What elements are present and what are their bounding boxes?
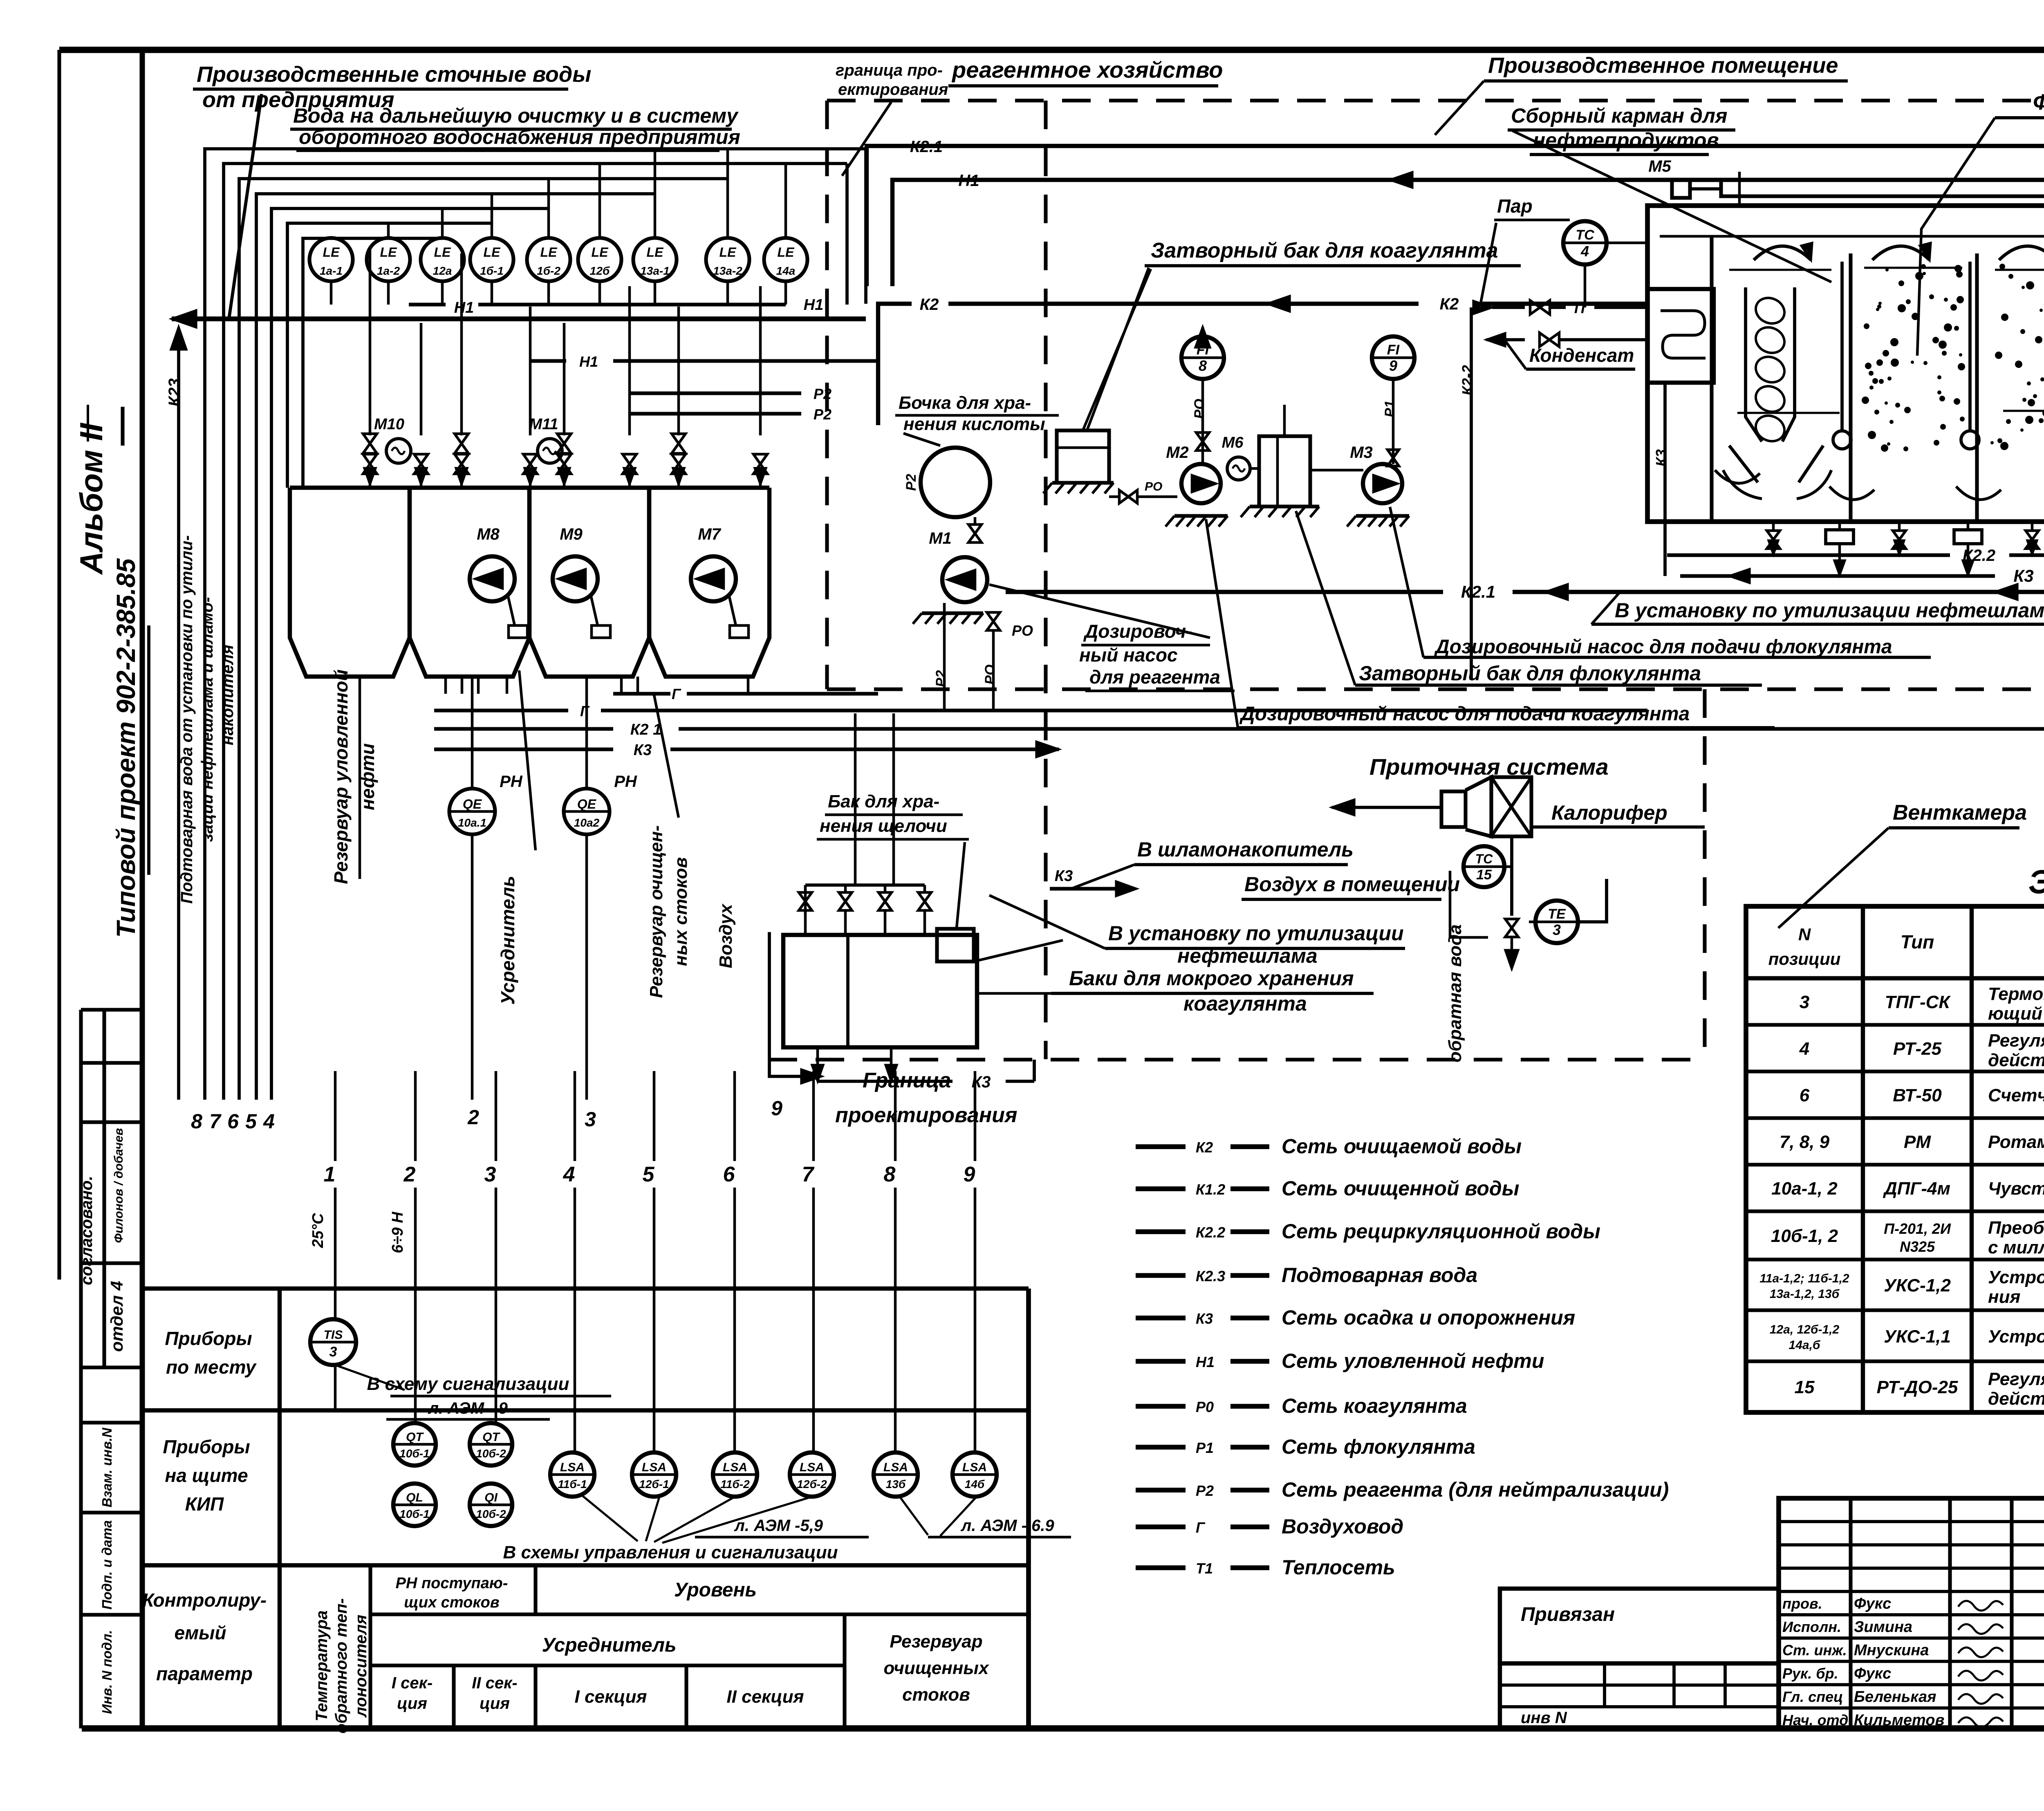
svg-text:Пар: Пар xyxy=(1497,195,1533,217)
svg-text:Теплосеть: Теплосеть xyxy=(1282,1556,1395,1579)
svg-text:10а-1, 2: 10а-1, 2 xyxy=(1771,1179,1838,1199)
svg-text:Усреднитель: Усреднитель xyxy=(497,876,518,1004)
svg-text:для реагента: для реагента xyxy=(1089,666,1220,688)
svg-text:Температура: Температура xyxy=(313,1610,331,1721)
svg-text:ных стоков: ных стоков xyxy=(671,857,691,966)
svg-text:М5: М5 xyxy=(1648,157,1671,175)
svg-text:Дозировочный насос для пода: Дозировочный насос для подачи коагулянта xyxy=(1239,703,1690,725)
svg-text:QT: QT xyxy=(482,1430,500,1444)
svg-text:2: 2 xyxy=(467,1106,479,1129)
svg-text:К2 1: К2 1 xyxy=(630,721,661,738)
svg-text:4: 4 xyxy=(263,1110,275,1133)
svg-text:РН: РН xyxy=(614,773,637,791)
svg-text:Р2: Р2 xyxy=(933,670,949,687)
svg-text:Воздух в помещении: Воздух в помещении xyxy=(1244,873,1460,896)
svg-text:емый: емый xyxy=(175,1622,226,1643)
svg-text:Р1: Р1 xyxy=(1382,400,1398,417)
svg-text:5: 5 xyxy=(643,1163,655,1186)
svg-text:11б-1: 11б-1 xyxy=(558,1478,587,1490)
svg-text:3: 3 xyxy=(1553,921,1561,938)
svg-text:Дозировоч-: Дозировоч- xyxy=(1083,621,1192,642)
svg-text:6: 6 xyxy=(1800,1085,1810,1105)
svg-text:LSA: LSA xyxy=(883,1461,908,1474)
svg-text:LE: LE xyxy=(592,245,609,260)
svg-text:Г: Г xyxy=(580,703,590,719)
svg-text:Сеть очищаемой воды: Сеть очищаемой воды xyxy=(1282,1135,1522,1158)
svg-text:6÷9 Н: 6÷9 Н xyxy=(389,1211,406,1253)
svg-text:В установку по утилизации н: В установку по утилизации нефтешлама xyxy=(1615,599,2044,622)
svg-text:Подтоварная вода: Подтоварная вода xyxy=(1282,1264,1477,1287)
svg-text:LE: LE xyxy=(719,245,737,260)
svg-text:инв N: инв N xyxy=(1521,1709,1567,1727)
svg-text:КИП: КИП xyxy=(185,1493,224,1515)
svg-text:FI: FI xyxy=(1387,342,1400,358)
svg-text:10б-2: 10б-2 xyxy=(476,1447,506,1460)
svg-text:К3: К3 xyxy=(1055,867,1073,885)
svg-text:LE: LE xyxy=(484,245,501,260)
svg-text:4: 4 xyxy=(563,1163,575,1186)
svg-text:В схему сигнализации: В схему сигнализации xyxy=(367,1374,569,1394)
svg-text:10а.1: 10а.1 xyxy=(458,816,486,829)
svg-text:Сеть коагулянта: Сеть коагулянта xyxy=(1282,1394,1467,1417)
svg-text:QЕ: QЕ xyxy=(577,797,597,811)
svg-text:Резервуар: Резервуар xyxy=(890,1632,982,1652)
svg-text:М10: М10 xyxy=(374,416,404,433)
svg-text:накопителя: накопителя xyxy=(219,645,237,745)
svg-text:Тип: Тип xyxy=(1901,931,1934,953)
svg-text:13а-1,2, 13б: 13а-1,2, 13б xyxy=(1770,1287,1840,1301)
svg-text:14б: 14б xyxy=(965,1478,985,1490)
svg-text:Г: Г xyxy=(672,686,681,702)
svg-text:обратного теп-: обратного теп- xyxy=(332,1598,350,1734)
svg-text:LSA: LSA xyxy=(800,1461,824,1474)
svg-text:граница про-: граница про- xyxy=(836,61,943,79)
svg-text:Воздух: Воздух xyxy=(716,903,736,968)
svg-text:Сеть рециркуляционной воды: Сеть рециркуляционной воды xyxy=(1282,1220,1600,1243)
svg-text:РН: РН xyxy=(500,773,523,791)
svg-text:N325: N325 xyxy=(1900,1238,1935,1255)
svg-text:действия: действия xyxy=(1988,1389,2044,1409)
svg-text:лоносителя: лоносителя xyxy=(352,1615,370,1718)
svg-text:Резервуар уловленной: Резервуар уловленной xyxy=(330,669,352,884)
svg-text:л. АЭМ -5,9: л. АЭМ -5,9 xyxy=(734,1517,823,1535)
svg-text:2: 2 xyxy=(403,1163,416,1186)
svg-text:Сеть уловленной нефти: Сеть уловленной нефти xyxy=(1282,1349,1544,1372)
svg-text:параметр: параметр xyxy=(156,1663,253,1684)
svg-text:К2.1: К2.1 xyxy=(910,138,943,156)
svg-text:Взам. инв.N: Взам. инв.N xyxy=(99,1427,114,1507)
svg-text:Вода на дальнейшую очистку и в: Вода на дальнейшую очистку и в систему xyxy=(293,104,739,127)
svg-text:Альбом II: Альбом II xyxy=(73,423,109,575)
svg-text:LE: LE xyxy=(540,245,558,260)
svg-text:Сборный карман для: Сборный карман для xyxy=(1511,104,1727,127)
svg-text:стоков: стоков xyxy=(902,1685,970,1705)
svg-text:П-201, 2И: П-201, 2И xyxy=(1884,1220,1951,1237)
svg-text:Г: Г xyxy=(1196,1519,1206,1536)
svg-text:Затворный бак для флокулянт: Затворный бак для флокулянта xyxy=(1359,662,1701,685)
svg-text:РТ-ДО-25: РТ-ДО-25 xyxy=(1877,1377,1958,1397)
svg-text:8: 8 xyxy=(191,1110,202,1133)
svg-text:ный насос: ный насос xyxy=(1079,644,1178,666)
svg-text:коагулянта: коагулянта xyxy=(1183,992,1307,1015)
svg-text:Мнускина: Мнускина xyxy=(1854,1642,1929,1659)
svg-text:Флотатор: Флотатор xyxy=(2033,90,2044,114)
svg-text:QL: QL xyxy=(406,1491,423,1504)
svg-text:щих стоков: щих стоков xyxy=(404,1594,500,1611)
svg-text:12б: 12б xyxy=(590,264,610,277)
svg-text:РО: РО xyxy=(982,664,998,684)
svg-text:Инв. N подл.: Инв. N подл. xyxy=(99,1630,114,1714)
svg-text:Типовой проект 902-2-385.85: Типовой проект 902-2-385.85 xyxy=(111,558,141,938)
svg-text:с миллиамперметром: с миллиамперметром xyxy=(1988,1237,2044,1257)
svg-text:Сеть осадка и опорожнения: Сеть осадка и опорожнения xyxy=(1282,1306,1575,1329)
svg-text:Устройство контроля сопротив: Устройство контроля сопротивле- xyxy=(1988,1267,2044,1287)
svg-text:Дозировочный насос для пода: Дозировочный насос для подачи флокулянта xyxy=(1434,636,1892,658)
svg-text:ния: ния xyxy=(1988,1287,2020,1307)
svg-text:пров.: пров. xyxy=(1782,1595,1822,1612)
svg-text:К2.3: К2.3 xyxy=(1196,1268,1225,1284)
svg-text:15: 15 xyxy=(1476,867,1492,883)
svg-text:Филонов / добачев: Филонов / добачев xyxy=(112,1128,126,1243)
svg-text:Баки для мокрого хранения: Баки для мокрого хранения xyxy=(1069,967,1354,990)
svg-text:3: 3 xyxy=(329,1344,337,1360)
svg-text:I секция: I секция xyxy=(575,1687,647,1707)
svg-text:УКС-1,1: УКС-1,1 xyxy=(1884,1327,1951,1347)
svg-text:Т1: Т1 xyxy=(1196,1560,1213,1577)
svg-text:Привязан: Привязан xyxy=(1521,1604,1615,1625)
svg-text:РО: РО xyxy=(1012,622,1033,639)
svg-text:К2.1: К2.1 xyxy=(1461,582,1495,601)
svg-text:согласовано.: согласовано. xyxy=(78,1176,96,1285)
svg-text:6: 6 xyxy=(723,1163,735,1186)
svg-text:К3: К3 xyxy=(2013,566,2033,585)
svg-text:УКС-1,2: УКС-1,2 xyxy=(1884,1275,1951,1295)
svg-text:Сеть флокулянта: Сеть флокулянта xyxy=(1282,1435,1475,1458)
svg-text:12а, 12б-1,2: 12а, 12б-1,2 xyxy=(1770,1323,1840,1336)
svg-text:К2: К2 xyxy=(920,296,939,314)
svg-text:Подп. и дата: Подп. и дата xyxy=(99,1520,114,1610)
svg-text:LE: LE xyxy=(778,245,795,260)
svg-text:Сеть очищенной воды: Сеть очищенной воды xyxy=(1282,1177,1520,1200)
svg-text:3: 3 xyxy=(585,1108,596,1131)
svg-text:ТЕ: ТЕ xyxy=(1548,906,1566,922)
svg-text:ция: ция xyxy=(480,1694,510,1712)
svg-text:Контролиру-: Контролиру- xyxy=(142,1589,267,1611)
svg-text:Ротаметр: Ротаметр xyxy=(1988,1132,2044,1152)
svg-text:К3: К3 xyxy=(1653,449,1670,466)
svg-text:РО: РО xyxy=(1145,480,1162,493)
svg-text:3: 3 xyxy=(1800,992,1809,1012)
svg-text:Фукс: Фукс xyxy=(1854,1595,1891,1612)
svg-text:ТС: ТС xyxy=(1576,227,1594,243)
svg-text:II сек-: II сек- xyxy=(472,1674,517,1692)
svg-text:обратная вода: обратная вода xyxy=(1445,924,1465,1062)
svg-text:3: 3 xyxy=(484,1163,496,1186)
svg-text:Преобразователь промышленный: Преобразователь промышленный xyxy=(1988,1218,2044,1238)
svg-text:М8: М8 xyxy=(477,525,500,543)
svg-text:очищенных: очищенных xyxy=(884,1658,989,1678)
svg-text:13а-2: 13а-2 xyxy=(713,264,742,277)
svg-text:Нач. отд: Нач. отд xyxy=(1782,1712,1848,1728)
svg-text:Воздуховод: Воздуховод xyxy=(1282,1515,1403,1538)
svg-text:Усреднитель: Усреднитель xyxy=(542,1634,676,1656)
svg-text:Регулятор температуры прямог: Регулятор температуры прямого xyxy=(1988,1369,2044,1389)
svg-text:QЕ: QЕ xyxy=(463,797,482,811)
svg-text:К2: К2 xyxy=(1196,1139,1213,1156)
svg-text:л. АЭМ - 6.9: л. АЭМ - 6.9 xyxy=(960,1517,1054,1535)
svg-text:оборотного водоснабжения пре: оборотного водоснабжения предприятия xyxy=(299,126,740,148)
svg-text:9: 9 xyxy=(771,1097,782,1120)
svg-text:Бак для хра-: Бак для хра- xyxy=(828,791,939,811)
svg-text:Устройство контроля сопротив: Устройство контроля сопротивления xyxy=(1988,1327,2044,1347)
svg-text:Приборы: Приборы xyxy=(165,1328,252,1349)
svg-text:Затворный бак для коагулянт: Затворный бак для коагулянта xyxy=(1151,239,1498,262)
svg-text:Кильметов: Кильметов xyxy=(1854,1712,1944,1729)
svg-text:11а-1,2; 11б-1,2: 11а-1,2; 11б-1,2 xyxy=(1759,1272,1849,1285)
svg-text:нения кислоты: нения кислоты xyxy=(903,414,1045,434)
svg-text:Р2: Р2 xyxy=(1196,1482,1214,1499)
svg-text:12б-2: 12б-2 xyxy=(797,1478,827,1490)
svg-text:LE: LE xyxy=(323,245,341,260)
svg-text:Резервуар очищен-: Резервуар очищен- xyxy=(646,825,666,998)
svg-text:6: 6 xyxy=(227,1110,239,1133)
svg-text:К2: К2 xyxy=(1440,295,1459,313)
svg-text:14а: 14а xyxy=(776,264,796,277)
svg-text:М7: М7 xyxy=(698,525,721,543)
svg-text:ВТ-50: ВТ-50 xyxy=(1893,1085,1942,1105)
svg-text:8: 8 xyxy=(884,1163,896,1186)
svg-text:на щите: на щите xyxy=(165,1465,248,1486)
svg-text:7: 7 xyxy=(209,1110,222,1133)
svg-text:К3: К3 xyxy=(634,742,652,759)
svg-text:Р0: Р0 xyxy=(1196,1399,1214,1415)
svg-text:Венткамера: Венткамера xyxy=(1893,801,2027,825)
svg-text:I сек-: I сек- xyxy=(392,1674,433,1692)
svg-text:Фукс: Фукс xyxy=(1854,1665,1891,1682)
svg-text:4: 4 xyxy=(1799,1039,1809,1059)
svg-text:LE: LE xyxy=(434,245,452,260)
svg-text:9: 9 xyxy=(964,1163,975,1186)
svg-text:по месту: по месту xyxy=(166,1356,257,1378)
svg-text:К23: К23 xyxy=(166,378,184,406)
svg-text:Экспликация: Экспликация xyxy=(2028,863,2044,901)
svg-text:Калорифер: Калорифер xyxy=(1551,801,1667,824)
svg-text:М2: М2 xyxy=(1166,444,1189,462)
svg-text:позиции: позиции xyxy=(1768,949,1841,968)
svg-text:11б-2: 11б-2 xyxy=(720,1478,750,1490)
svg-text:4: 4 xyxy=(1580,243,1589,260)
svg-text:проектирования: проектирования xyxy=(835,1103,1018,1127)
svg-text:ТПГ-СК: ТПГ-СК xyxy=(1885,992,1951,1012)
svg-text:12б-1: 12б-1 xyxy=(639,1478,669,1490)
svg-text:М6: М6 xyxy=(1222,434,1244,451)
svg-text:Уровень: Уровень xyxy=(674,1579,757,1601)
svg-text:QT: QT xyxy=(406,1430,424,1444)
svg-text:Беленькая: Беленькая xyxy=(1854,1688,1936,1706)
svg-text:LE: LE xyxy=(380,245,398,260)
svg-text:зации нефтешлама и шламо-: зации нефтешлама и шламо- xyxy=(198,597,216,842)
svg-text:ДПГ-4м: ДПГ-4м xyxy=(1883,1179,1950,1199)
svg-text:1а-2: 1а-2 xyxy=(377,264,400,277)
svg-text:нения щелочи: нения щелочи xyxy=(820,816,947,836)
svg-text:10б-2: 10б-2 xyxy=(476,1508,506,1520)
svg-text:отдел 4: отдел 4 xyxy=(107,1281,126,1352)
svg-text:Производственное помещение: Производственное помещение xyxy=(1488,53,1838,78)
svg-text:Н1: Н1 xyxy=(454,299,474,316)
svg-text:Р1: Р1 xyxy=(1196,1439,1214,1456)
svg-text:Гл. спец: Гл. спец xyxy=(1782,1688,1843,1705)
svg-text:10б-1, 2: 10б-1, 2 xyxy=(1771,1226,1838,1246)
svg-text:В установку по утилизации: В установку по утилизации xyxy=(1108,922,1404,945)
svg-text:II секция: II секция xyxy=(726,1687,804,1707)
svg-text:N: N xyxy=(1798,925,1811,944)
svg-text:1а-1: 1а-1 xyxy=(320,264,343,277)
svg-text:Бочка для хра-: Бочка для хра- xyxy=(899,393,1031,413)
svg-text:К2.2: К2.2 xyxy=(1196,1224,1225,1241)
svg-text:РМ: РМ xyxy=(1904,1132,1931,1152)
svg-text:8: 8 xyxy=(1199,357,1207,374)
svg-text:Конденсат: Конденсат xyxy=(1529,345,1634,366)
svg-text:QI: QI xyxy=(484,1491,498,1504)
svg-text:Исполн.: Исполн. xyxy=(1782,1618,1841,1635)
svg-text:7, 8, 9: 7, 8, 9 xyxy=(1780,1132,1830,1152)
svg-text:М11: М11 xyxy=(529,416,558,433)
svg-text:М9: М9 xyxy=(560,525,583,543)
svg-text:ющий сигнализирующий: ющий сигнализирующий xyxy=(1988,1004,2044,1024)
svg-text:12а: 12а xyxy=(433,264,452,277)
svg-text:10б-1: 10б-1 xyxy=(399,1447,429,1460)
svg-text:Рук. бр.: Рук. бр. xyxy=(1782,1665,1838,1682)
svg-text:Термометр манометрический пок: Термометр манометрический показыва- xyxy=(1988,984,2044,1004)
svg-text:10а2: 10а2 xyxy=(574,816,600,829)
svg-text:9: 9 xyxy=(1389,357,1397,374)
svg-text:13а-1: 13а-1 xyxy=(640,264,670,277)
svg-text:Счетчик холодной воды: Счетчик холодной воды xyxy=(1988,1085,2044,1105)
svg-text:РН поступаю-: РН поступаю- xyxy=(396,1575,508,1592)
svg-text:ектирования: ектирования xyxy=(838,81,948,99)
svg-text:Приточная система: Приточная система xyxy=(1369,754,1609,780)
svg-text:нефтешлама: нефтешлама xyxy=(1177,944,1318,967)
svg-text:Приборы: Приборы xyxy=(163,1436,250,1457)
svg-text:14а,б: 14а,б xyxy=(1789,1338,1821,1352)
svg-text:1: 1 xyxy=(324,1163,336,1186)
svg-text:нефтепродуктов: нефтепродуктов xyxy=(1533,129,1719,152)
svg-text:реагентное хозяйство: реагентное хозяйство xyxy=(951,57,1223,83)
svg-text:Р2: Р2 xyxy=(903,474,919,491)
svg-text:РТ-25: РТ-25 xyxy=(1893,1039,1942,1059)
svg-text:LSA: LSA xyxy=(642,1461,666,1474)
svg-text:М3: М3 xyxy=(1350,444,1373,462)
svg-text:ТI: ТI xyxy=(1572,300,1585,316)
svg-text:ция: ция xyxy=(397,1694,427,1712)
svg-text:25°C: 25°C xyxy=(309,1213,327,1248)
svg-text:15: 15 xyxy=(1795,1377,1815,1397)
svg-text:7: 7 xyxy=(802,1163,815,1186)
svg-text:РО: РО xyxy=(1192,399,1207,419)
svg-text:В шламонакопитель: В шламонакопитель xyxy=(1137,838,1354,861)
svg-text:М1: М1 xyxy=(929,529,952,547)
svg-text:13б: 13б xyxy=(886,1478,906,1490)
svg-text:LSA: LSA xyxy=(560,1461,585,1474)
svg-text:Н1: Н1 xyxy=(958,172,979,190)
svg-text:LSA: LSA xyxy=(962,1461,987,1474)
svg-text:К2-2: К2-2 xyxy=(1459,365,1476,395)
svg-text:1б-1: 1б-1 xyxy=(480,264,504,277)
svg-text:Производственные сточные вод: Производственные сточные воды xyxy=(197,62,591,87)
svg-text:Н1: Н1 xyxy=(1196,1354,1215,1370)
svg-text:Н1: Н1 xyxy=(579,353,598,370)
svg-text:1б-2: 1б-2 xyxy=(537,264,560,277)
svg-text:К3: К3 xyxy=(1196,1310,1213,1327)
svg-text:10б-1: 10б-1 xyxy=(399,1508,429,1520)
svg-text:Н1: Н1 xyxy=(804,296,824,314)
svg-text:LE: LE xyxy=(647,245,664,260)
svg-text:К1.2: К1.2 xyxy=(1196,1181,1225,1198)
svg-text:В схемы управления и сигнал: В схемы управления и сигнализации xyxy=(503,1542,838,1562)
svg-text:Регулятор температуры прямог: Регулятор температуры прямого xyxy=(1988,1031,2044,1051)
svg-text:ТС: ТС xyxy=(1475,852,1493,866)
svg-text:Ст. инж.: Ст. инж. xyxy=(1782,1642,1847,1659)
svg-text:Зимина: Зимина xyxy=(1854,1618,1912,1636)
svg-text:действия: действия xyxy=(1988,1050,2044,1070)
svg-text:LSA: LSA xyxy=(723,1461,747,1474)
svg-text:5: 5 xyxy=(245,1110,257,1133)
svg-text:Чувствительный элемент: Чувствительный элемент xyxy=(1988,1179,2044,1199)
svg-text:TIS: TIS xyxy=(324,1328,343,1342)
svg-text:Сеть реагента (для нейтрали: Сеть реагента (для нейтрализации) xyxy=(1282,1478,1669,1501)
svg-text:Подтоварная вода от установки: Подтоварная вода от установки по утили- xyxy=(178,535,196,903)
